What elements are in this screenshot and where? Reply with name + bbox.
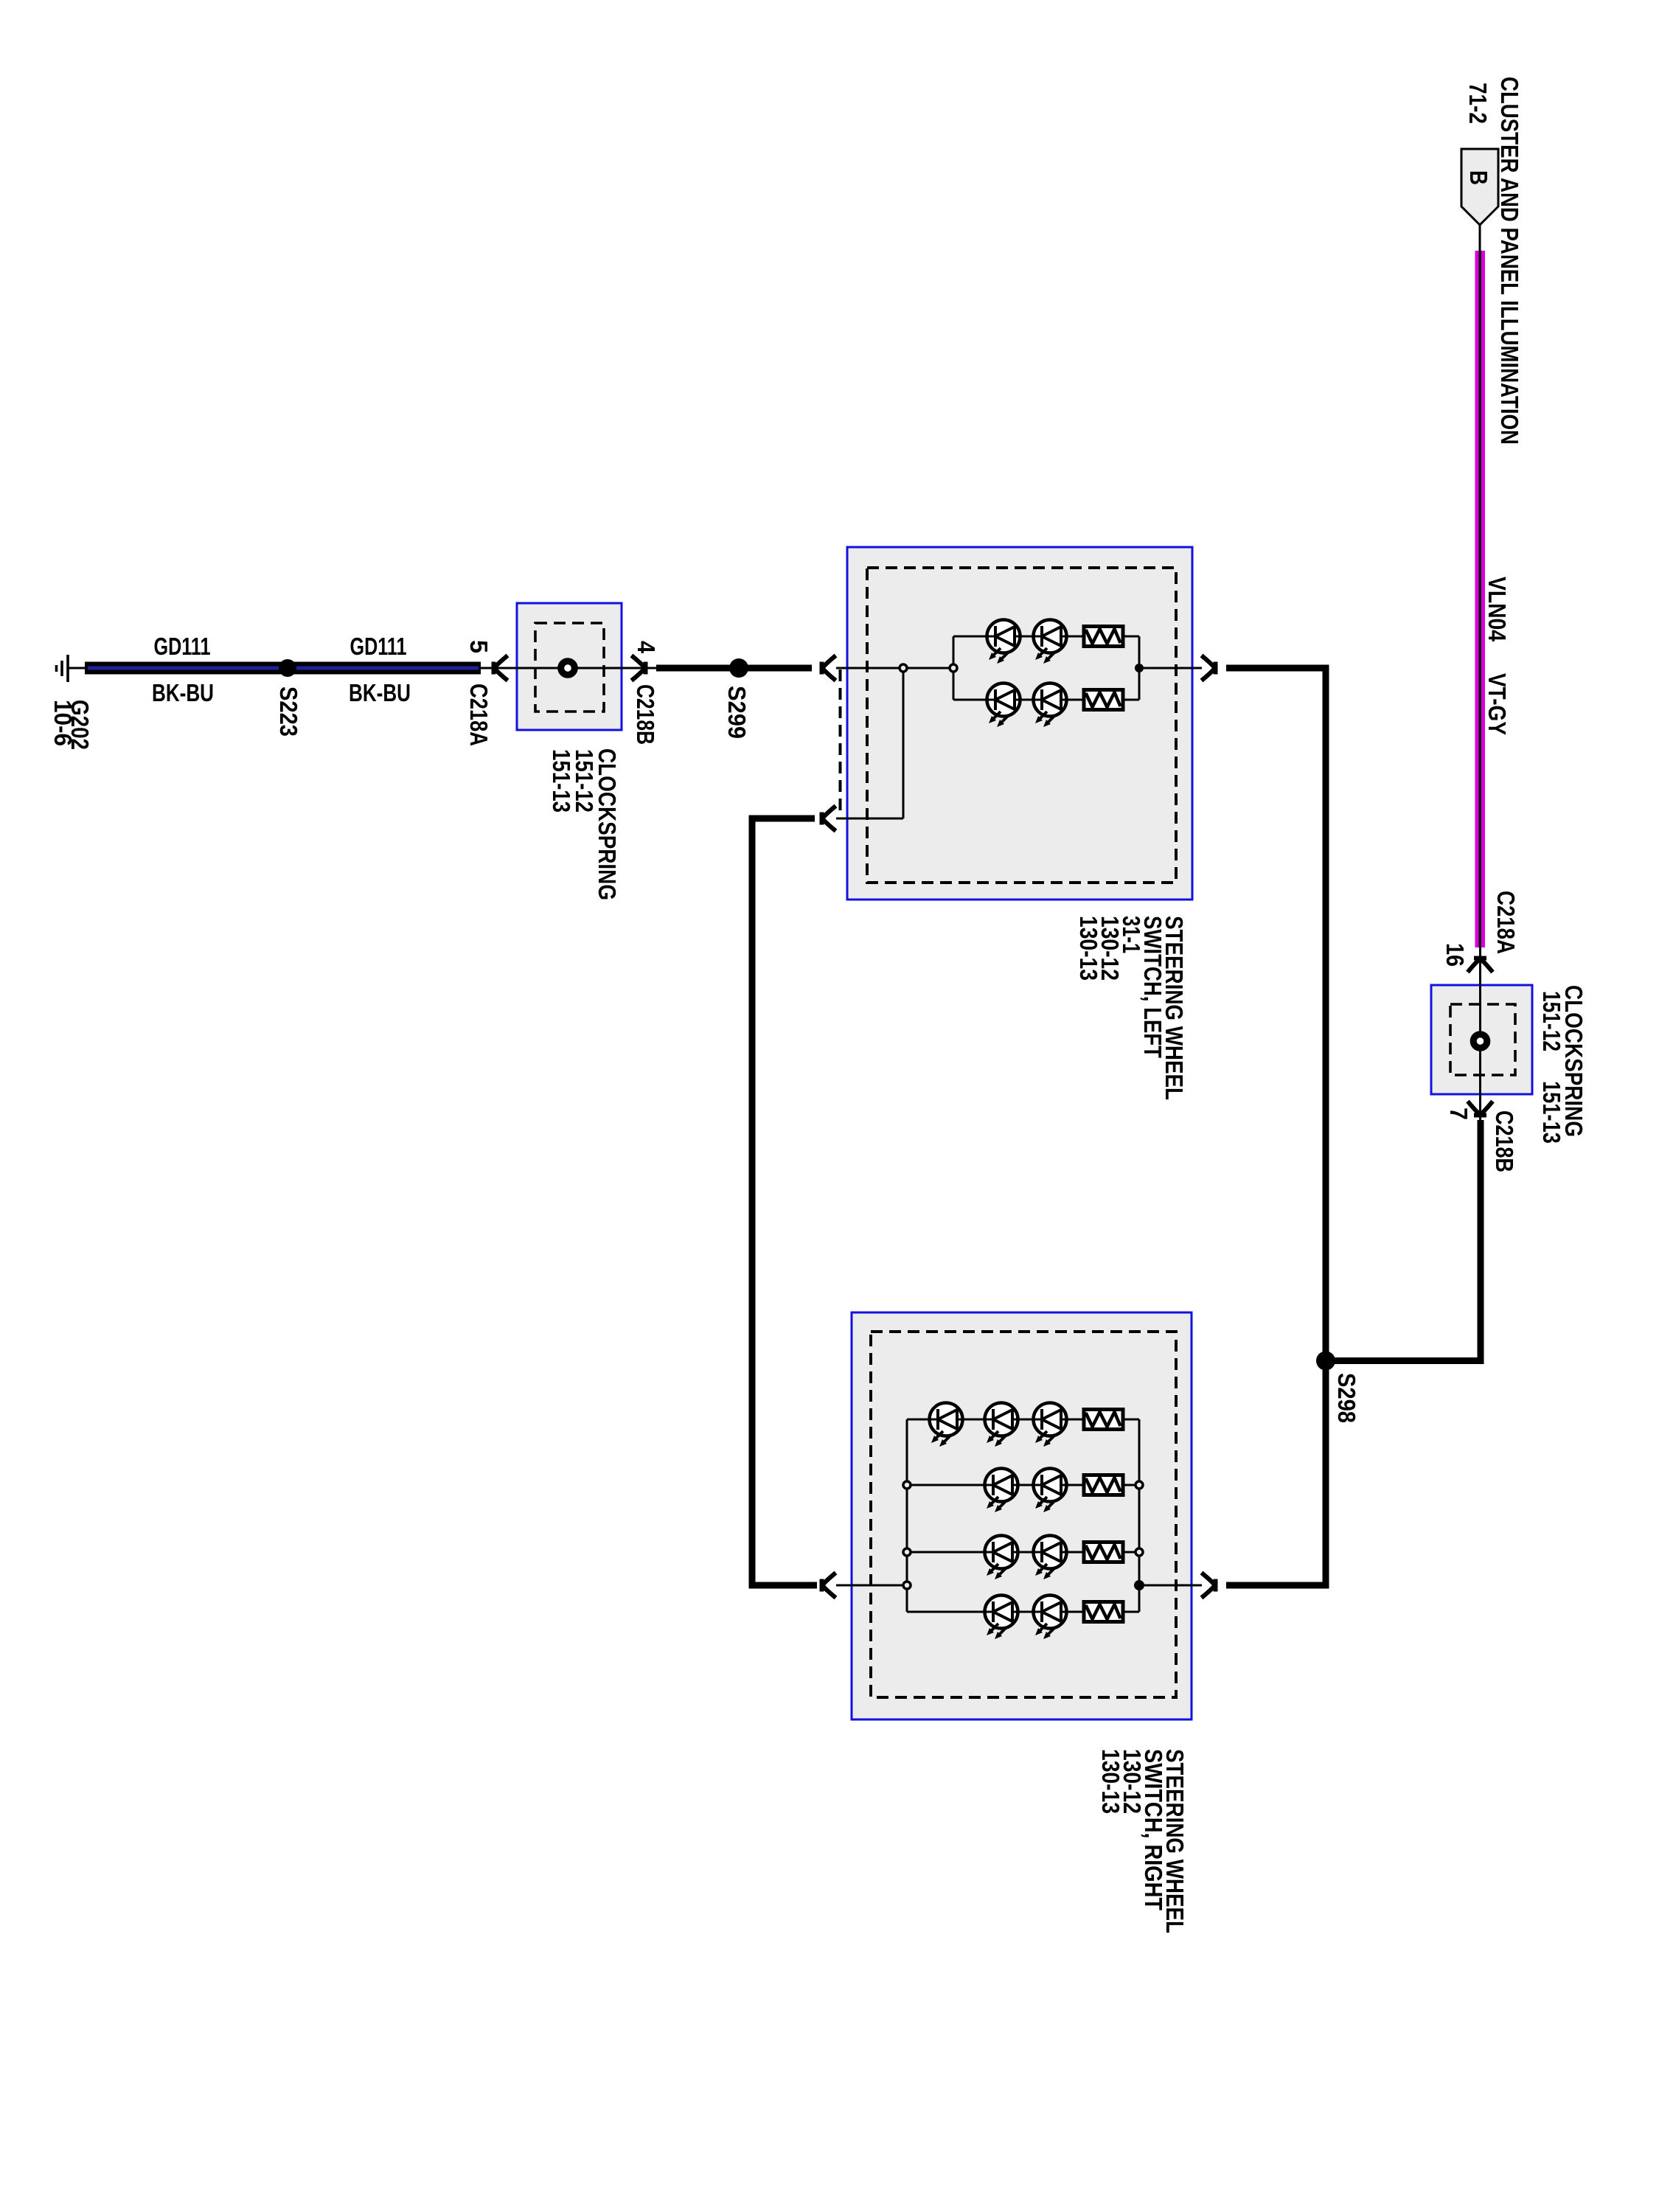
svg-text:10-6: 10-6 — [49, 700, 77, 746]
svg-text:C218B: C218B — [1491, 1110, 1518, 1172]
svg-text:VT-GY: VT-GY — [1484, 673, 1511, 735]
svg-text:S298: S298 — [1333, 1373, 1360, 1423]
svg-text:B: B — [1465, 170, 1492, 185]
svg-text:CLUSTER AND PANEL ILLUMINATION: CLUSTER AND PANEL ILLUMINATION — [1496, 77, 1523, 445]
svg-text:GD111: GD111 — [350, 633, 407, 660]
svg-text:151-12: 151-12 — [1538, 991, 1565, 1051]
svg-text:C218A: C218A — [1492, 891, 1520, 954]
svg-text:151-13: 151-13 — [1538, 1081, 1565, 1144]
svg-text:16: 16 — [1441, 943, 1469, 967]
svg-text:BK-BU: BK-BU — [152, 679, 214, 706]
svg-text:C218A: C218A — [465, 684, 493, 746]
svg-text:71-2: 71-2 — [1464, 83, 1492, 124]
svg-text:BK-BU: BK-BU — [349, 679, 411, 706]
svg-text:5: 5 — [465, 640, 493, 653]
svg-text:GD111: GD111 — [154, 633, 211, 660]
svg-text:S299: S299 — [723, 686, 751, 739]
svg-text:130-13: 130-13 — [1097, 1749, 1124, 1814]
svg-text:4: 4 — [633, 641, 660, 654]
svg-text:7: 7 — [1445, 1107, 1472, 1120]
svg-text:151-13: 151-13 — [548, 749, 575, 813]
svg-text:C218B: C218B — [632, 684, 659, 745]
svg-text:VLN04: VLN04 — [1484, 577, 1511, 642]
svg-text:S223: S223 — [275, 686, 302, 737]
svg-text:130-13: 130-13 — [1075, 916, 1102, 981]
